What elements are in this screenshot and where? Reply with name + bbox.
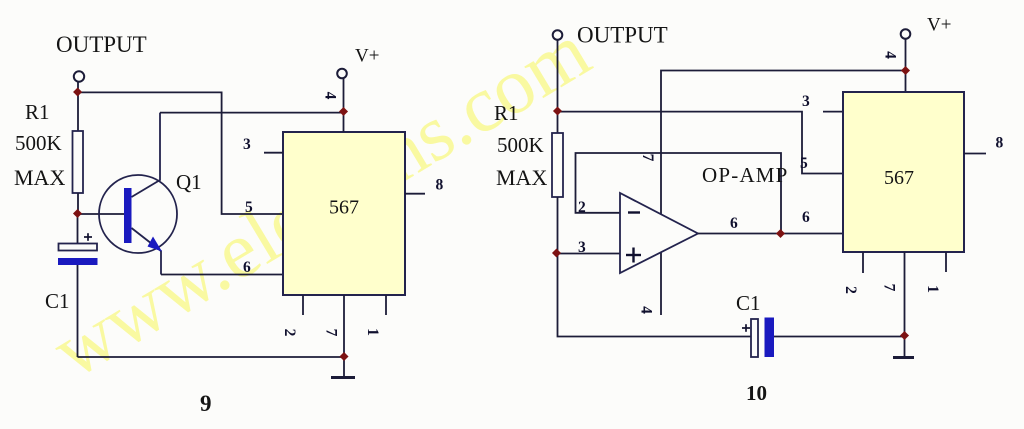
junction dot base left xyxy=(73,209,82,218)
transistor Q1 emitter arrow xyxy=(148,237,163,252)
V+ terminal right xyxy=(901,29,911,39)
op-amp U2 triangle xyxy=(620,193,698,273)
svg-text:4: 4 xyxy=(882,51,899,59)
junction dot output right xyxy=(553,106,562,115)
svg-text:2: 2 xyxy=(578,199,586,216)
svg-text:2: 2 xyxy=(281,329,298,337)
terminal OUTPUT right xyxy=(553,30,563,40)
junction dot ground right xyxy=(900,331,909,340)
watermark www.elecfans.com xyxy=(38,7,604,396)
op-amp plus symbol xyxy=(626,248,641,263)
ground symbol left xyxy=(343,357,345,378)
wire output terminal down to resistor R1 xyxy=(77,82,79,131)
IC U3 567 box right xyxy=(843,92,964,252)
op-amp output wire to 567 pin 6 xyxy=(698,233,843,235)
svg-text:3: 3 xyxy=(578,239,586,256)
ground symbol right xyxy=(904,337,906,358)
svg-text:R1: R1 xyxy=(25,100,50,124)
svg-text:1: 1 xyxy=(364,328,381,336)
svg-text:500K: 500K xyxy=(15,131,62,155)
svg-text:500K: 500K xyxy=(497,133,544,157)
ground bar right xyxy=(893,356,914,359)
svg-text:4: 4 xyxy=(638,306,655,314)
svg-text:9: 9 xyxy=(200,391,212,416)
pin 7 wire bottom left IC to ground xyxy=(343,295,345,357)
bottom wire to ground node xyxy=(78,356,345,358)
capacitor C1 plus sign xyxy=(84,233,92,241)
wire C1 bottom to ground rail xyxy=(77,265,79,357)
transistor Q1 base bar (blue) xyxy=(124,188,132,243)
svg-text:5: 5 xyxy=(245,199,253,216)
op-amp minus symbol xyxy=(628,211,640,213)
capacitor C1 right plus sign xyxy=(742,324,750,332)
IC U1 567 box xyxy=(283,132,405,295)
svg-text:1: 1 xyxy=(924,285,941,293)
transistor Q1 collector xyxy=(132,113,161,197)
svg-text:10: 10 xyxy=(746,381,767,405)
op-amp feedback loop wire xyxy=(576,153,782,234)
transistor Q1 circle xyxy=(99,175,177,253)
pin 4 wire V+ down to IC xyxy=(343,78,345,132)
svg-text:3: 3 xyxy=(243,136,251,153)
svg-text:OP-AMP: OP-AMP xyxy=(702,163,789,187)
pin 2 stub bottom left IC xyxy=(302,295,304,315)
svg-text:6: 6 xyxy=(802,209,810,226)
transistor Q1 emitter xyxy=(132,228,162,275)
op-amp pin 7 wire up to V+ rail xyxy=(661,71,906,215)
wire C1 right plate to ground node xyxy=(774,336,905,338)
pin 2 stub bottom right IC xyxy=(862,252,864,273)
pin 8 stub left IC xyxy=(405,193,425,195)
pin 1 stub bottom right IC xyxy=(945,252,947,272)
svg-text:V+: V+ xyxy=(927,15,951,36)
svg-text:5: 5 xyxy=(800,155,808,172)
wire node down to bottom rail to C1 xyxy=(558,254,752,337)
capacitor C1 top plate xyxy=(59,244,98,251)
wire collector to V+ node xyxy=(160,112,344,114)
V+ terminal left xyxy=(337,69,347,79)
pin 7 wire bottom right IC to ground xyxy=(904,252,906,337)
svg-text:7: 7 xyxy=(639,154,656,162)
wire node to 567 pin5: right and down xyxy=(558,112,844,174)
pin 1 stub bottom left IC xyxy=(385,295,387,315)
svg-text:7: 7 xyxy=(323,329,340,337)
wire resistor to base node xyxy=(77,193,79,214)
svg-text:6: 6 xyxy=(730,215,738,232)
ground bar left xyxy=(331,376,355,379)
svg-text:R1: R1 xyxy=(494,101,519,125)
svg-text:2: 2 xyxy=(842,286,859,294)
pin 4 wire V+ down to IC right xyxy=(905,39,907,92)
junction dot op-amp output xyxy=(776,229,785,238)
wire resistor to plus node xyxy=(557,197,559,254)
junction dot V+ right xyxy=(901,66,910,75)
svg-text:6: 6 xyxy=(243,259,251,276)
junction dot output left xyxy=(73,87,82,96)
junction dot V+ left xyxy=(339,107,348,116)
op-amp pin 4 stub down xyxy=(660,252,662,315)
resistor R1 xyxy=(73,131,84,193)
wire node A to pin5: right and down xyxy=(78,92,283,214)
svg-text:MAX: MAX xyxy=(14,165,65,190)
wire output terminal down to resistor R1 right xyxy=(557,40,559,133)
terminal OUTPUT left xyxy=(74,71,84,81)
wire emitter to pin 6 xyxy=(161,274,283,276)
junction dot plus node right xyxy=(552,248,561,257)
capacitor C1 right: left plate xyxy=(751,319,758,357)
svg-text:OUTPUT: OUTPUT xyxy=(56,32,147,57)
svg-text:C1: C1 xyxy=(45,289,70,313)
svg-text:567: 567 xyxy=(884,167,914,189)
svg-text:OUTPUT: OUTPUT xyxy=(577,23,668,48)
wire base node down to capacitor C1 xyxy=(77,214,79,244)
svg-text:C1: C1 xyxy=(736,291,761,315)
svg-text:567: 567 xyxy=(329,197,359,219)
svg-text:7: 7 xyxy=(881,284,898,292)
resistor R1 right xyxy=(552,133,563,197)
pin 8 stub right IC xyxy=(964,153,986,155)
capacitor C1 right plate (blue) xyxy=(765,318,775,358)
svg-text:V+: V+ xyxy=(355,46,379,67)
wire node to op-amp pin 3 xyxy=(558,253,621,255)
svg-text:Q1: Q1 xyxy=(176,170,202,194)
svg-text:4: 4 xyxy=(322,92,339,100)
svg-text:3: 3 xyxy=(802,93,810,110)
capacitor C1 bottom plate (blue) xyxy=(58,258,98,265)
pin 3 stub right IC xyxy=(823,111,843,113)
svg-text:8: 8 xyxy=(996,135,1004,152)
wire base node to transistor base xyxy=(78,213,124,215)
pin 3 stub left IC xyxy=(264,152,283,154)
svg-text:8: 8 xyxy=(436,177,444,194)
svg-text:MAX: MAX xyxy=(496,165,547,190)
junction dot ground left xyxy=(339,352,348,361)
